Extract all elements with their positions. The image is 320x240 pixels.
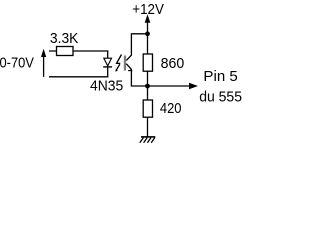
svg-text:Pin 5: Pin 5	[203, 69, 237, 85]
svg-text:+12V: +12V	[132, 2, 164, 18]
svg-text:4N35: 4N35	[90, 78, 123, 94]
svg-text:0-70V: 0-70V	[0, 55, 34, 71]
svg-text:du 555: du 555	[199, 90, 242, 106]
svg-text:3.3K: 3.3K	[50, 31, 79, 47]
svg-text:860: 860	[161, 56, 185, 72]
svg-text:420: 420	[160, 101, 182, 117]
